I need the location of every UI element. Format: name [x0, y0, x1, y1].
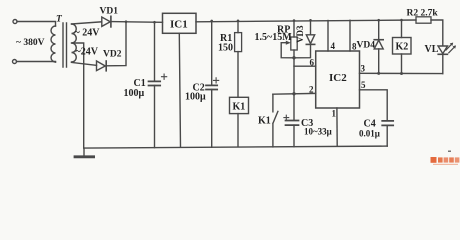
svg-text:100μ: 100μ: [124, 88, 145, 99]
svg-text:K1: K1: [233, 102, 246, 113]
watermark: [431, 151, 460, 166]
svg-text:~24V: ~24V: [76, 47, 99, 58]
svg-text:1: 1: [332, 109, 337, 119]
svg-text:100μ: 100μ: [185, 92, 206, 103]
svg-text:1.5~15M: 1.5~15M: [255, 32, 293, 43]
LED light arrows: [446, 44, 455, 53]
resistor R2: [416, 17, 431, 23]
wire IC1 ground pin: [179, 33, 180, 147]
IC1: [163, 13, 197, 33]
diode VD2: [97, 61, 106, 71]
wire primary bottom: [17, 61, 56, 64]
ground: [83, 148, 85, 156]
capacitor C2: [211, 21, 213, 85]
svg-text:3: 3: [361, 64, 366, 74]
svg-text:VD3: VD3: [295, 25, 305, 43]
wire pin1: [336, 108, 338, 146]
capacitor C1: [154, 22, 156, 80]
wire secondary top to VD1: [72, 22, 102, 24]
diode VD3: [310, 20, 312, 35]
switch contact K1: [273, 94, 278, 147]
wire center tap down to ground: [72, 43, 84, 148]
wire pin6: [294, 65, 316, 67]
wire R2 to VL: [431, 20, 443, 46]
node C1 junction: [153, 21, 156, 24]
svg-text:~ 380V: ~ 380V: [16, 38, 45, 48]
svg-text:K1: K1: [258, 116, 271, 127]
transformer T primary winding: [51, 26, 56, 62]
node RP wiper junction: [292, 56, 295, 59]
wire pin2: [273, 92, 316, 95]
svg-text:4: 4: [331, 41, 336, 51]
node VD2 riser junction: [125, 20, 128, 23]
svg-text:VD4: VD4: [357, 41, 376, 51]
wire pin4: [327, 21, 329, 52]
wire top rail left: [111, 21, 163, 24]
terminal bottom-left: [13, 60, 17, 64]
LED VL: [438, 46, 448, 54]
relay coil K1: [230, 97, 249, 113]
svg-text:~ 24V: ~ 24V: [75, 28, 101, 39]
svg-text:VD2: VD2: [103, 50, 122, 60]
transformer T secondary winding: [72, 24, 77, 62]
IC2: [316, 51, 360, 108]
svg-text:VL: VL: [425, 44, 439, 55]
svg-text:2: 2: [309, 84, 314, 94]
svg-text:T: T: [56, 15, 63, 25]
svg-text:IC1: IC1: [170, 18, 188, 30]
transformer core: [63, 23, 67, 67]
wire pin5 to C4: [360, 90, 388, 121]
svg-text:0.01μ: 0.01μ: [359, 129, 380, 139]
wire IC1 output rail: [196, 20, 416, 22]
potentiometer RP: [293, 21, 295, 37]
relay coil K2: [401, 20, 403, 37]
svg-text:10~33μ: 10~33μ: [304, 127, 332, 137]
capacitor C4: [382, 121, 393, 126]
wire pin3: [360, 72, 443, 74]
wire bottom rail: [84, 146, 387, 148]
svg-text:6: 6: [310, 58, 315, 68]
svg-text:R2 2.7k: R2 2.7k: [407, 9, 439, 19]
wire pin8: [349, 20, 351, 51]
diode VD1: [102, 17, 111, 26]
diode VD4: [378, 20, 380, 39]
terminal top-left: [13, 20, 17, 24]
svg-text:5: 5: [361, 80, 366, 90]
svg-text:150: 150: [218, 43, 233, 54]
resistor R1: [237, 21, 239, 33]
svg-text:VD1: VD1: [100, 7, 119, 17]
RP wiper arrow: [281, 43, 294, 58]
wire VD2 to rail riser: [106, 22, 126, 66]
svg-text:K2: K2: [396, 42, 409, 53]
wire primary top: [17, 22, 56, 27]
wire secondary bottom to VD2: [72, 62, 97, 65]
capacitor C3: [286, 121, 299, 126]
svg-text:IC2: IC2: [329, 72, 347, 84]
node pin2 junction: [292, 92, 295, 95]
